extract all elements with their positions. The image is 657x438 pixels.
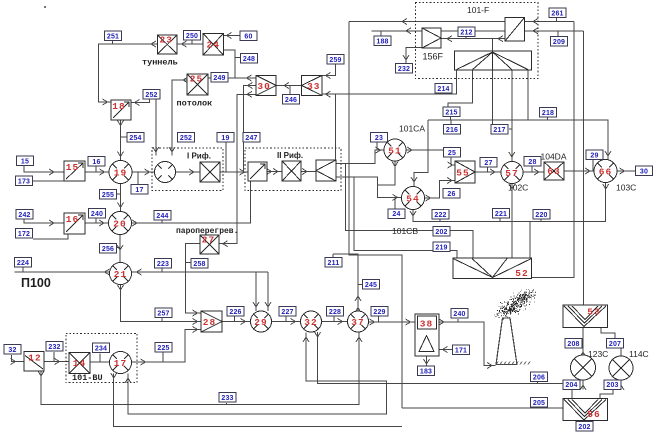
drum 104DA 63 — [544, 162, 564, 180]
svg-text:51: 51 — [388, 146, 401, 157]
wire 25 label to 55 — [451, 156, 455, 165]
wire furnace pass to 57 — [511, 70, 513, 162]
node stream 222 — [432, 210, 449, 220]
svg-text:220: 220 — [535, 212, 547, 219]
svg-text:211: 211 — [328, 260, 340, 267]
node stream 234 — [93, 343, 110, 353]
node stream 28 — [524, 157, 541, 167]
mixer 28 — [201, 311, 222, 332]
wire 20 to 21 — [119, 235, 121, 263]
wire stub stream 19 — [225, 142, 227, 173]
svg-text:221: 221 — [495, 211, 507, 218]
wire furnace pass 215 — [448, 70, 473, 108]
wire stub stream 28 — [531, 166, 533, 173]
svg-text:101-BU: 101-BU — [72, 373, 103, 383]
wire 204 to 56 — [571, 389, 573, 398]
svg-text:240: 240 — [91, 211, 103, 218]
svg-text:14: 14 — [73, 358, 86, 369]
wire flue line 261 through convection coil — [349, 21, 574, 23]
node stream 254 — [127, 133, 144, 143]
reformer II preheat — [248, 162, 267, 181]
wire 51 to 25 label — [407, 149, 444, 151]
svg-text:32: 32 — [304, 317, 317, 328]
wire 12 split to 37 — [41, 333, 359, 405]
wire stub stream 222 — [439, 219, 441, 222]
node stream 242 — [16, 210, 33, 220]
dashed box reformer II — [245, 148, 341, 191]
splitter 33 — [302, 75, 322, 95]
wire 38 to stack — [439, 322, 496, 366]
svg-text:218: 218 — [542, 110, 554, 117]
svg-text:66: 66 — [599, 167, 612, 178]
svg-text:226: 226 — [229, 309, 241, 316]
svg-text:101CB: 101CB — [392, 226, 418, 236]
wire duct to burner fan apex — [492, 39, 494, 53]
node stream 221 — [493, 209, 510, 219]
wire stub stream 255 — [117, 193, 121, 195]
wire stub stream 224 — [22, 267, 24, 273]
cooler 57 — [501, 162, 523, 184]
wire stub stream 250 — [191, 40, 193, 45]
wire header to 54 top — [414, 120, 428, 186]
svg-text:232: 232 — [398, 66, 410, 73]
svg-text:37: 37 — [351, 317, 364, 328]
svg-text:101CA: 101CA — [399, 124, 425, 134]
svg-text:223: 223 — [157, 261, 169, 268]
stack chimney — [496, 318, 530, 365]
cooler 66 — [594, 160, 617, 183]
svg-text:252: 252 — [145, 92, 157, 99]
wire branch 33 riser — [334, 94, 336, 160]
svg-text:206: 206 — [533, 374, 545, 381]
svg-text:26: 26 — [447, 191, 455, 198]
wire 25 outlet to reformer mixer — [172, 80, 187, 156]
wire stub stream 245 — [358, 284, 363, 286]
wire 123C to 204 — [582, 380, 584, 389]
svg-text:256: 256 — [102, 246, 114, 253]
wire bottoms header — [413, 183, 606, 221]
svg-text:15: 15 — [66, 162, 79, 173]
wire feed 172 line — [33, 234, 68, 239]
wire long vertical V1 from 101-F to bottom — [349, 22, 402, 409]
svg-text:19: 19 — [221, 135, 229, 142]
svg-text:209: 209 — [553, 39, 565, 46]
wire 203 to 56 — [600, 389, 613, 398]
wire flue gas downcomer right — [532, 22, 574, 278]
fan 123C — [571, 355, 596, 380]
svg-text:туннель: туннель — [142, 58, 178, 68]
node stream 224 — [15, 258, 32, 268]
reformer I mixer circle — [155, 162, 176, 183]
wire stub stream 256 — [116, 247, 120, 249]
wire 29 to 32 — [272, 321, 301, 323]
svg-text:258: 258 — [193, 261, 205, 268]
node stream 173 — [16, 176, 33, 186]
node stream 16 — [88, 157, 105, 167]
wire stub stream 228 — [333, 317, 335, 322]
wire line 219 to 52 — [354, 177, 457, 258]
node stream 232 — [396, 64, 413, 74]
wire 60 to 24 — [224, 35, 240, 37]
reformer II bed — [282, 161, 301, 181]
wire 38 bottom to 183 — [426, 356, 428, 366]
svg-text:28: 28 — [203, 317, 216, 328]
svg-text:15: 15 — [21, 158, 29, 165]
node stream 188 — [374, 36, 391, 46]
wire stub stream 251 — [112, 41, 114, 45]
svg-text:104DA: 104DA — [541, 152, 567, 162]
node stream 261 — [549, 8, 566, 18]
wire 55 to 57 — [475, 171, 501, 173]
node stream 251 — [105, 31, 122, 41]
wire 16 to 20 — [85, 222, 108, 224]
node stream 208 — [565, 339, 582, 349]
node stream 15 — [17, 156, 34, 166]
node stream 26 — [443, 189, 460, 199]
node stream 217 — [491, 125, 508, 135]
exchanger 14 — [69, 353, 90, 374]
wire 30 outlet to 247 — [244, 86, 257, 173]
node stream 257 — [155, 308, 172, 318]
wire stub stream 211 — [332, 254, 334, 257]
wire reformer II internal 1 — [267, 171, 282, 173]
flare unit 38 — [415, 314, 439, 356]
wire stub stream 258 — [186, 262, 191, 264]
wire 14 to 17 — [90, 361, 110, 363]
wire stub stream 227 — [285, 317, 287, 322]
splitter 12 — [24, 352, 44, 372]
node stream 228 — [327, 307, 344, 317]
wire 33 to 30 — [276, 85, 302, 87]
wire 21 right header — [132, 271, 268, 273]
superheater 27 — [200, 235, 219, 254]
wire feed 15 line — [24, 165, 64, 173]
svg-text:224: 224 — [17, 260, 29, 267]
wire line 211-245 to 37 — [333, 254, 358, 310]
node stream 25 — [444, 148, 461, 158]
svg-text:29: 29 — [590, 152, 598, 159]
node stream 205 — [531, 398, 548, 408]
svg-text:60: 60 — [244, 33, 252, 40]
wire furnace pass 214 to 33 — [323, 70, 457, 95]
wire 57 to 63 — [523, 171, 544, 173]
wire stub stream 244 — [161, 219, 163, 223]
wire stub 218 — [547, 115, 549, 120]
svg-text:215: 215 — [445, 109, 457, 116]
svg-text:228: 228 — [329, 309, 341, 316]
wire flue duct coil to 156F — [441, 38, 505, 40]
wire furnace pass 218 — [527, 70, 529, 121]
svg-text:30: 30 — [257, 81, 270, 92]
wire stub stream 212 — [465, 35, 467, 39]
wire stub stream 254 — [121, 136, 128, 138]
svg-text:203: 203 — [606, 382, 618, 389]
node stream 17 — [131, 185, 148, 195]
node stream 60 — [240, 31, 257, 41]
node stream 252 (2) — [178, 133, 195, 143]
wire 66 outlet to 30 — [617, 170, 635, 172]
svg-text:38: 38 — [420, 319, 433, 330]
svg-text:25: 25 — [190, 74, 203, 85]
separator 51 — [384, 139, 406, 161]
heat recovery 52 — [453, 258, 532, 279]
wire stub 217 to 57 line — [509, 128, 512, 130]
wire stub stream 24 — [394, 197, 396, 208]
wire 17 to 28 riser — [132, 330, 201, 363]
wire mixer to xbox — [176, 171, 200, 173]
wire furnace pass 217 — [492, 70, 494, 126]
svg-text:249: 249 — [213, 75, 225, 82]
svg-text:12: 12 — [28, 353, 41, 364]
node stream 214 — [435, 84, 452, 94]
svg-text:101-F: 101-F — [467, 5, 489, 15]
wire line 202 to 52 — [346, 163, 473, 258]
svg-text:24: 24 — [207, 39, 220, 50]
wire 259 to 33 — [323, 63, 336, 76]
svg-text:233: 233 — [221, 395, 233, 402]
wire 171 to 38 — [440, 349, 453, 351]
wire stub stream 221 — [499, 218, 501, 222]
svg-text:53: 53 — [587, 307, 600, 318]
svg-text:240: 240 — [453, 311, 465, 318]
svg-text:17: 17 — [135, 187, 143, 194]
svg-text:114C: 114C — [629, 349, 649, 359]
node stream 183 — [418, 366, 435, 376]
node stream 248 — [241, 54, 258, 64]
node stream 225 — [155, 343, 172, 353]
mixer 37 — [348, 311, 369, 332]
svg-text:244: 244 — [156, 213, 168, 220]
node stream 247 — [243, 133, 260, 143]
svg-text:254: 254 — [129, 135, 141, 142]
wire stub stream 246 — [289, 86, 291, 95]
wire stub stream 240b — [457, 319, 459, 322]
wire 17 liquid to 56 — [114, 374, 402, 427]
node stream 252 — [143, 90, 160, 100]
wire 252 branch into 18 — [132, 97, 150, 103]
svg-text:18: 18 — [112, 101, 125, 112]
wire stub stream 248 — [235, 57, 241, 59]
dashed box 101-F — [415, 2, 538, 78]
wire feed 173 line — [33, 180, 68, 182]
mixer 29 — [251, 311, 272, 332]
svg-text:I Риф.: I Риф. — [187, 152, 211, 161]
wire stub 216 up — [450, 120, 452, 125]
wire stub stream 232b — [53, 352, 55, 362]
node stream 24 — [388, 209, 405, 219]
wire reformer II bottom outlet to 54 — [336, 177, 401, 198]
wire 21 to 28 — [121, 285, 201, 322]
svg-text:252: 252 — [180, 135, 192, 142]
wire feed 242 line — [24, 219, 64, 224]
heater 16 — [64, 213, 85, 234]
svg-text:227: 227 — [281, 309, 293, 316]
node stream 255 — [100, 190, 117, 200]
svg-text:202: 202 — [435, 229, 447, 236]
wire 24 outlet via 248 — [224, 50, 235, 78]
node stream 218 — [540, 108, 557, 118]
svg-text:173: 173 — [18, 178, 30, 185]
separator 17 — [110, 352, 132, 374]
wire stub stream 261 — [556, 17, 558, 22]
wire 27 outlet to 28 — [186, 244, 201, 313]
wire stub stream 225 — [162, 351, 164, 363]
wire stub stream 205 — [537, 407, 539, 408]
wire stub stream 257 — [161, 316, 163, 322]
svg-text:20: 20 — [113, 219, 126, 230]
wire 32 bottoms to 204 — [318, 332, 563, 383]
wire steam from 20 to reformer II — [132, 181, 251, 223]
node stream 232 (2) — [46, 342, 63, 352]
node stream 227 — [279, 307, 296, 317]
svg-text:251: 251 — [107, 33, 119, 40]
wire 32 to 37 — [322, 321, 348, 323]
node stream 172 — [16, 229, 33, 239]
wire 18 outlet to 19 — [120, 120, 122, 160]
node stream 202 (2) — [576, 422, 593, 432]
svg-text:54: 54 — [406, 194, 419, 205]
svg-text:19: 19 — [114, 168, 127, 179]
svg-text:183: 183 — [420, 368, 432, 375]
wire stub stream 209 — [557, 31, 559, 37]
svg-text:214: 214 — [437, 86, 449, 93]
wire 114C bottom to 203 — [620, 380, 622, 389]
node stream 19 — [217, 133, 234, 143]
heater 15 — [64, 161, 85, 181]
wire stub stream 223 — [161, 268, 163, 272]
svg-text:208: 208 — [567, 341, 579, 348]
filter 53 — [563, 305, 608, 328]
svg-text:255: 255 — [102, 192, 114, 199]
wire 54 to 26 to 55 — [425, 181, 455, 199]
smoke plume — [494, 290, 536, 319]
svg-text:17: 17 — [114, 358, 127, 369]
exchanger 156F body — [422, 28, 441, 48]
svg-text:27: 27 — [202, 235, 215, 246]
node stream 246 — [283, 95, 300, 105]
wire reformer II top outlet to 51 — [336, 150, 384, 163]
wire 24 to 23 — [178, 43, 204, 45]
svg-text:23: 23 — [160, 35, 173, 46]
node stream 259 — [327, 55, 344, 65]
svg-text:63: 63 — [547, 166, 560, 177]
node stream 202 — [433, 227, 450, 237]
wire 53 right stub to 207 — [601, 328, 615, 339]
node stream 233 — [219, 393, 236, 403]
node stream 219 — [433, 242, 450, 252]
wire 19 to 20 — [120, 184, 122, 212]
wire header drop b to 29 — [267, 272, 269, 311]
svg-text:16: 16 — [92, 159, 100, 166]
node stream 209 — [551, 37, 568, 47]
wire stub stream 214 — [442, 92, 444, 95]
svg-text:103C: 103C — [616, 183, 636, 193]
svg-text:21: 21 — [114, 269, 127, 280]
wire 21 left outlet P100 — [15, 271, 110, 273]
wire stub stream 229 — [378, 317, 380, 323]
wire 19 to reformer I — [132, 171, 154, 173]
wire line to 56 — [402, 407, 563, 409]
svg-text:27: 27 — [484, 160, 492, 167]
svg-text:250: 250 — [186, 33, 198, 40]
node stream 223 — [155, 259, 172, 269]
burner box 101-F radiant — [455, 51, 532, 70]
mixer 19 — [109, 161, 132, 184]
svg-text:102C: 102C — [508, 183, 528, 193]
wire 37 to 38 — [369, 321, 415, 323]
mixer 24 — [203, 34, 224, 56]
node stream 203 — [604, 380, 621, 390]
wire bottoms header drop to 52 — [529, 221, 531, 258]
node stream 211 — [325, 258, 342, 268]
svg-text:232: 232 — [48, 344, 60, 351]
wire 56 to 202 — [584, 421, 586, 422]
svg-text:29: 29 — [254, 317, 267, 328]
wire stub stream 16 — [95, 166, 97, 173]
wire 15 to 19 — [85, 171, 109, 173]
svg-text:205: 205 — [533, 400, 545, 407]
wire stub stream 226 — [234, 317, 236, 322]
node stream 207 — [607, 339, 624, 349]
node stream 220 — [533, 210, 550, 220]
wire stub stream 23 — [376, 140, 378, 150]
svg-text:216: 216 — [446, 127, 458, 134]
svg-text:56: 56 — [587, 409, 600, 420]
wire air line 209 through convection coil — [372, 30, 584, 32]
svg-text:пароперегрев.: пароперегрев. — [176, 227, 238, 236]
svg-text:219: 219 — [435, 244, 447, 251]
svg-text:123C: 123C — [588, 349, 608, 359]
mixer 21 — [110, 263, 132, 285]
svg-text:33: 33 — [307, 81, 320, 92]
node stream 229 — [371, 307, 388, 317]
svg-text:225: 225 — [157, 345, 169, 352]
svg-text:261: 261 — [551, 10, 563, 17]
wire 12 to 14 — [44, 361, 69, 363]
svg-text:24: 24 — [392, 211, 400, 218]
wire stub stream 240 — [95, 218, 97, 223]
node stream 244 — [154, 211, 171, 221]
svg-text:222: 222 — [434, 212, 446, 219]
svg-text:248: 248 — [243, 56, 255, 63]
svg-text:247: 247 — [245, 135, 257, 142]
wire 23 outlet to 18 — [99, 44, 158, 102]
node artifact dot — [44, 6, 46, 8]
node stream 204 — [563, 380, 580, 390]
node stream 250 — [184, 31, 201, 41]
svg-text:245: 245 — [365, 282, 377, 289]
wire stub stream 249 — [219, 78, 221, 81]
wire 51 bottoms join 54 feed — [378, 162, 396, 185]
wire stub to stream 188 — [380, 31, 382, 36]
reformer II cooler — [316, 160, 336, 181]
wire 28 to 29 — [222, 321, 250, 323]
node stream 23 — [371, 133, 388, 143]
svg-text:55: 55 — [456, 168, 469, 179]
filter 56 — [563, 399, 608, 421]
wire stub 215 down — [450, 115, 452, 120]
wire stub stream 234 — [99, 354, 101, 363]
wire 30 outlet to superheater 27 — [220, 94, 257, 243]
wire feed 32 line — [12, 355, 24, 362]
svg-text:28: 28 — [528, 159, 536, 166]
node stream 258 — [191, 259, 208, 269]
dashed box reformer I — [152, 148, 223, 191]
burner 23 tunnel — [158, 35, 178, 54]
svg-text:212: 212 — [460, 29, 472, 36]
node stream 212 — [458, 27, 475, 37]
node stream 30 — [636, 166, 653, 176]
